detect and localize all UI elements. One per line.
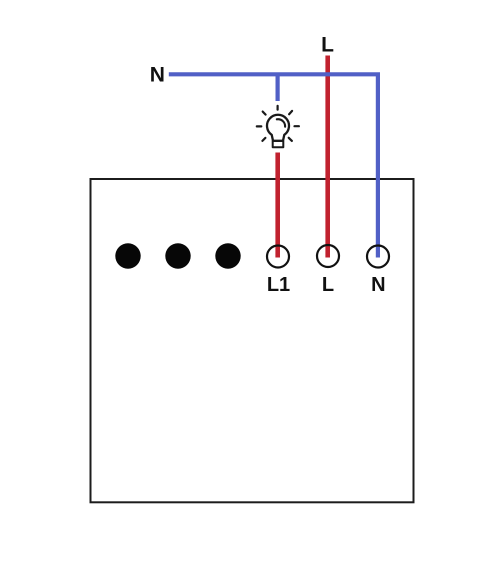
label terminal L1 [267,274,290,296]
label terminal L [322,274,334,296]
wire red L supply [325,56,330,258]
label N supply [150,63,165,86]
lamp DS1 [257,106,299,147]
wire blue N horizontal [169,74,378,257]
module box [91,179,414,502]
terminal L1 [267,246,289,268]
svg-text:L: L [321,34,334,57]
dot 3 [215,243,240,268]
terminal L [317,245,339,267]
svg-text:L: L [322,274,334,296]
label terminal N [371,274,385,296]
svg-text:N: N [150,63,165,86]
svg-text:L1: L1 [267,274,290,296]
dot 2 [165,243,190,268]
terminal N [367,246,389,268]
svg-text:N: N [371,274,385,296]
wire red lamp to L1 [275,153,280,258]
dot 1 [115,243,140,268]
label L supply [321,34,334,57]
wire blue stub to lamp [276,73,280,102]
